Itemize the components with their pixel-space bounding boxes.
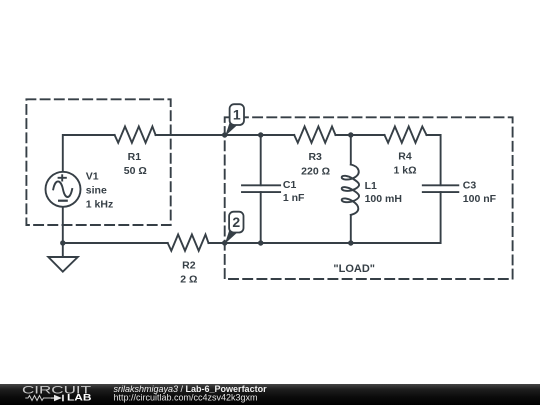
svg-text:L1: L1 [365, 180, 377, 192]
svg-text:100 nF: 100 nF [463, 193, 497, 205]
svg-text:2: 2 [232, 214, 240, 230]
svg-text:C1: C1 [283, 179, 297, 191]
svg-text:C3: C3 [463, 179, 477, 191]
wire node 2 to C1 bottom [225, 242, 261, 244]
wire C1 top to R3 [261, 134, 295, 136]
wire C1 bottom to L1 bottom [261, 242, 351, 244]
logo resistor squiggle [25, 396, 51, 401]
wire C3 bottom to rail [351, 192, 441, 243]
svg-text:1 kΩ: 1 kΩ [393, 164, 416, 176]
svg-text:sine: sine [86, 185, 107, 197]
svg-text:V1: V1 [86, 170, 99, 182]
resistor R2 [168, 235, 209, 251]
svg-text:R2: R2 [182, 260, 196, 272]
wire L1 top to R4 [351, 134, 385, 136]
wire V1 top to R1 [63, 135, 115, 172]
wire L1 bottom lead [350, 215, 352, 243]
svg-text:LAB: LAB [67, 393, 92, 403]
svg-text:100 mH: 100 mH [365, 193, 402, 205]
node tag 1 pointer [225, 121, 237, 136]
inductor L1 [342, 165, 359, 215]
wire node 1 to C1 top [225, 134, 261, 136]
svg-text:R3: R3 [308, 151, 322, 163]
svg-text:220 Ω: 220 Ω [301, 166, 330, 178]
wire R1 to node 1 [156, 134, 225, 136]
junction node 2 [222, 240, 227, 245]
junction L1 top [348, 132, 353, 137]
capacitor C1 [242, 185, 280, 192]
node tag 2 [229, 212, 243, 233]
svg-text:2 Ω: 2 Ω [180, 274, 197, 286]
svg-text:R4: R4 [398, 151, 412, 163]
junction C1 bottom [258, 240, 263, 245]
wire V1 bottom to ground rail [62, 207, 64, 243]
junction node 1 [222, 132, 227, 137]
junction L1 bottom [348, 240, 353, 245]
voltage source V1 [46, 172, 81, 207]
svg-text:http://circuitlab.com/cc4zsv42: http://circuitlab.com/cc4zsv42k3gxm [114, 392, 258, 402]
wire R2 to node 2 [209, 242, 225, 244]
wire C1 top lead [260, 135, 262, 185]
svg-text:1 kHz: 1 kHz [86, 198, 113, 210]
wire C1 bottom lead [260, 192, 262, 243]
logo diode [51, 395, 64, 402]
capacitor C3 [423, 185, 459, 192]
resistor R1 [115, 127, 156, 143]
node tag 2 pointer [225, 229, 237, 244]
svg-text:"LOAD": "LOAD" [333, 263, 375, 275]
load dashed box [225, 117, 513, 279]
resistor R4 [385, 127, 427, 143]
source dashed box [26, 99, 170, 225]
node tag 1 [230, 104, 244, 125]
junction ground [60, 240, 65, 245]
wire L1 top lead [350, 135, 352, 165]
svg-text:R1: R1 [128, 151, 142, 163]
wire R4 to C3 top [427, 135, 441, 185]
resistor R3 [294, 127, 335, 143]
wire R3 to L1 top [336, 134, 351, 136]
svg-text:1: 1 [233, 107, 241, 123]
footer bar [0, 384, 540, 405]
svg-text:1 nF: 1 nF [283, 192, 305, 204]
junction C1 top [258, 132, 263, 137]
wire rail ground to R2 [63, 242, 168, 244]
svg-text:50 Ω: 50 Ω [124, 165, 147, 177]
ground [48, 243, 78, 272]
